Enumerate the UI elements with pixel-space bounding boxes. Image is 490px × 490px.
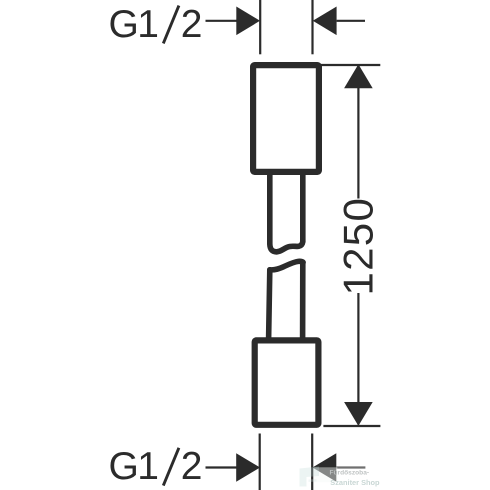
arrow top left (points right) — [236, 7, 260, 36]
watermark overlay fading the arrow — [313, 467, 337, 482]
arrow 1250 top (points up) — [344, 64, 373, 88]
top connector nut — [253, 65, 319, 172]
arrow 1250 bottom (points down) — [344, 402, 373, 426]
extension line 1250 top — [321, 64, 380, 66]
arrow bottom right (points left) — [313, 453, 337, 482]
watermark text — [330, 470, 381, 487]
leader line bottom left — [206, 466, 241, 468]
dimension label G1/2 (bottom) — [109, 445, 203, 488]
leader tail bottom right — [336, 466, 365, 468]
extension line top left — [259, 0, 261, 54]
watermark logo — [300, 467, 320, 487]
extension line bottom left — [259, 434, 261, 490]
hose upper break line — [277, 242, 303, 252]
svg-text:1: 1 — [137, 3, 159, 46]
hose upper segment right wall — [300, 172, 306, 242]
svg-text:Szaniter Shop: Szaniter Shop — [330, 478, 380, 487]
extension line 1250 bottom — [323, 425, 380, 427]
svg-text:2: 2 — [181, 445, 203, 488]
leader line top left — [206, 20, 241, 22]
dimension label G1/2 (top) — [109, 3, 203, 46]
bottom connector nut — [255, 340, 319, 424]
svg-text:1250: 1250 — [334, 197, 381, 296]
svg-text:G: G — [109, 3, 139, 46]
hose lower break line — [270, 261, 303, 270]
svg-text:Fürdőszoba-: Fürdőszoba- — [330, 470, 370, 477]
hose upper segment left wall — [270, 172, 277, 252]
hose lower segment left wall — [269, 270, 270, 339]
svg-text:1: 1 — [137, 445, 159, 488]
leader tail top right — [337, 20, 365, 22]
hose lower segment right wall — [300, 262, 306, 339]
svg-text:2: 2 — [181, 3, 203, 46]
extension line top right — [311, 0, 313, 54]
dimension line 1250 upper part — [357, 66, 359, 199]
arrow top right (points left) — [313, 7, 337, 36]
extension line bottom right — [311, 434, 313, 490]
svg-text:G: G — [109, 445, 139, 488]
arrow bottom left (points right) — [236, 453, 260, 482]
dimension line 1250 lower part — [357, 293, 359, 425]
